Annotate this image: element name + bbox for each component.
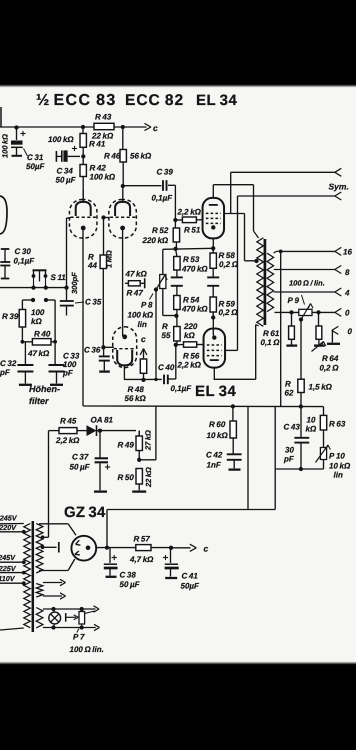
R64 label: [320, 354, 340, 373]
R55 label: [162, 322, 171, 340]
rectifier GZ34: [71, 536, 96, 561]
R59 label: [219, 300, 239, 318]
resistor R40: [21, 339, 57, 345]
label 225V: [0, 564, 17, 573]
svg-text:C 41: C 41: [182, 572, 199, 581]
svg-text:C 42: C 42: [206, 451, 223, 460]
potentiometer P8: [156, 275, 176, 316]
grid bus between halves: [103, 218, 105, 256]
junction dot R61 tap: [289, 310, 293, 314]
svg-text:filter: filter: [29, 396, 49, 406]
junction dots P7: [80, 607, 84, 630]
R61 label: [261, 329, 281, 347]
svg-text:220 kΩ: 220 kΩ: [142, 236, 169, 245]
svg-text:0: 0: [345, 309, 350, 318]
C38 label: [120, 571, 141, 590]
OT secondary winding: [267, 253, 274, 311]
V3 g2 riser to Sym 2: [237, 196, 239, 350]
svg-text:10: 10: [307, 416, 316, 425]
svg-text:56 kΩ: 56 kΩ: [125, 394, 147, 403]
svg-text:2,2 kΩ: 2,2 kΩ: [55, 436, 80, 445]
V1b anode lead: [122, 186, 124, 203]
screen-to-tap wire: [245, 214, 257, 261]
svg-text:C 35: C 35: [85, 298, 102, 307]
R54 label: [181, 296, 208, 314]
GZ34 anode wire bottom: [39, 559, 75, 571]
tap wire 245V-2: [0, 561, 24, 563]
svg-text:R: R: [162, 322, 168, 331]
HT bus y=406: [83, 405, 324, 408]
GZ 34 label (big): [64, 504, 106, 521]
resistor R59: [210, 297, 216, 318]
resistor R53: [174, 249, 180, 270]
junction dot OT primary B+ tap: [254, 259, 258, 263]
wire: B+ rail 'c' top-left, y=127: [0, 126, 147, 128]
V2 g2 wire: [224, 213, 245, 215]
tap dot 245V-2: [22, 560, 26, 564]
V1a anode lead: [82, 190, 84, 203]
Hoehenfilter label: [29, 384, 60, 406]
capacitor C42: [227, 454, 242, 469]
R53 label: [181, 255, 208, 274]
R44 value 1MΩ (rotated): [105, 250, 114, 268]
svg-text:0,2 Ω: 0,2 Ω: [320, 364, 340, 373]
junction dot R41/R42/C34: [81, 154, 85, 158]
wire C39 to R52 node: [168, 185, 175, 219]
svg-text:P 7: P 7: [73, 633, 85, 642]
svg-text:470 kΩ: 470 kΩ: [181, 305, 208, 314]
label 245V: [0, 514, 18, 523]
heater arrow 1: [43, 579, 66, 585]
label 0 (second): [348, 327, 353, 336]
svg-text:C 36: C 36: [84, 346, 101, 355]
resistor R47: [125, 278, 145, 288]
capacitor C37 (electrolytic): [94, 431, 110, 492]
svg-text:30: 30: [285, 446, 294, 455]
label 220V: [0, 523, 17, 532]
junction dot R52 bottom: [173, 247, 177, 251]
label 4: [344, 289, 350, 298]
C34 label: [56, 167, 77, 185]
svg-text:c: c: [204, 544, 209, 554]
svg-text:EL 34: EL 34: [195, 383, 237, 400]
svg-text:C 34: C 34: [57, 167, 74, 176]
B+ feed riser: [247, 406, 249, 509]
svg-text:kΩ: kΩ: [31, 317, 42, 326]
svg-text:4: 4: [344, 289, 350, 298]
tap wire 220V: [0, 531, 24, 533]
P8 feed wire: [162, 249, 164, 274]
svg-text:62: 62: [285, 389, 294, 398]
resistor R52: [173, 228, 179, 249]
V2 g2 riser to Sym: [230, 172, 232, 213]
svg-text:C 31: C 31: [27, 153, 44, 162]
HT secondary tap dot (bias): [41, 535, 45, 539]
R44 label: [87, 253, 97, 271]
capacitor C38 (electrolytic): [104, 548, 118, 577]
lamp circuit bottom wire: [43, 624, 100, 630]
R51 value 2.2kΩ: [177, 208, 202, 217]
C30 label: [14, 247, 36, 266]
svg-text:1,5 kΩ: 1,5 kΩ: [309, 383, 333, 392]
junction dot C37 tap: [98, 428, 102, 432]
svg-text:R 64: R 64: [322, 354, 339, 363]
svg-text:R 46: R 46: [104, 152, 121, 161]
svg-text:100 kΩ: 100 kΩ: [90, 173, 116, 182]
svg-text:Sym.: Sym.: [329, 182, 349, 192]
svg-text:300pF: 300pF: [70, 272, 79, 294]
resistor R64 (adjustable): [312, 312, 326, 351]
resistor R45: [49, 428, 87, 434]
resistor R42: [80, 151, 86, 200]
V2 g1 wire: [0, 0, 1, 1]
OT primary winding: [257, 238, 264, 326]
R45 label: [55, 417, 80, 446]
svg-text:pF: pF: [62, 369, 74, 378]
tap dot 225V: [22, 571, 26, 575]
capacitor C35: [60, 288, 74, 316]
svg-text:225V: 225V: [0, 564, 17, 573]
junction dot input/S11 left: [31, 285, 35, 289]
resistor R51: [175, 217, 202, 223]
secondary riser to bus: [280, 251, 282, 406]
P9 label: [288, 295, 305, 305]
capacitor C33: [49, 342, 65, 385]
svg-text:4,7 kΩ: 4,7 kΩ: [129, 555, 154, 564]
R40 value 47kΩ: [27, 349, 50, 358]
junction dot R54/P8/R55: [174, 314, 178, 318]
R46 label: [104, 152, 152, 161]
svg-text:c: c: [141, 334, 146, 344]
tap wire 110V: [0, 582, 24, 584]
B+ feed wire y=509.5: [107, 509, 275, 511]
resistor R58: [210, 248, 216, 268]
R42 label: [90, 164, 116, 182]
capacitor C32: [17, 342, 33, 385]
svg-text:c: c: [153, 123, 158, 133]
svg-text:245V: 245V: [0, 553, 16, 562]
R50 label: [118, 473, 135, 482]
R43 value 22 kΩ: [91, 132, 114, 141]
junction dot R59 bottom: [211, 315, 215, 319]
resistor R46: [120, 127, 126, 186]
capacitor C34 (electrolytic, input coupling): [56, 146, 80, 162]
tap dot 110V: [22, 581, 26, 585]
svg-text:50µF: 50µF: [181, 582, 201, 591]
PT core: [32, 521, 35, 632]
junction dot input/S11 right: [44, 285, 48, 289]
Sym label: [329, 182, 349, 192]
V1c anode lead: [123, 366, 125, 380]
svg-text:R 56: R 56: [183, 352, 200, 361]
OT secondary top hook: [274, 251, 281, 253]
svg-text:0,1µF: 0,1µF: [152, 194, 174, 203]
diode OA81: [87, 425, 137, 436]
C43 label: [283, 423, 300, 464]
svg-text:1nF: 1nF: [207, 461, 222, 470]
scan paper background: [0, 85, 356, 665]
junction dot R64 tap: [316, 310, 320, 314]
svg-text:GZ 34: GZ 34: [64, 504, 106, 521]
svg-text:pF: pF: [283, 455, 295, 464]
svg-text:lin: lin: [334, 471, 343, 480]
junction dot R41 top: [81, 125, 85, 129]
label 245V-2: [0, 553, 16, 562]
svg-text:C 30: C 30: [15, 247, 32, 256]
R41 value 100 kΩ: [48, 135, 74, 144]
capacitor between R58/R59: [207, 268, 219, 297]
box left wire: [274, 406, 276, 509]
arrow terminal c (R48 top): [140, 334, 147, 359]
tap wire 225V: [0, 572, 24, 574]
V2 anode wire to OT primary top: [213, 185, 258, 238]
svg-text:100 kΩ: 100 kΩ: [128, 311, 154, 320]
V3 g2 wire: [225, 349, 237, 351]
tap 16 wire: [281, 247, 342, 255]
svg-text:C 43: C 43: [284, 423, 301, 432]
junction dot wiper/C40 wire: [154, 378, 157, 381]
rotated label 100 kΩ (left edge resistor): [1, 107, 10, 158]
svg-text:C 37: C 37: [72, 453, 89, 462]
pentode V2 (EL34 upper): [203, 198, 225, 239]
R57 label: [129, 535, 154, 565]
svg-text:50 µF: 50 µF: [120, 580, 141, 589]
svg-text:lin: lin: [138, 320, 147, 329]
svg-text:10 kΩ: 10 kΩ: [207, 431, 229, 440]
svg-text:245V: 245V: [0, 514, 18, 523]
C32 label: [0, 359, 17, 377]
svg-text:0,2 Ω: 0,2 Ω: [219, 308, 239, 317]
pilot lamp: [49, 609, 61, 628]
svg-text:C 40: C 40: [158, 363, 175, 372]
svg-text:110V: 110V: [0, 574, 16, 583]
junction dot C43 bottom: [299, 467, 303, 471]
svg-text:50 µF: 50 µF: [70, 463, 91, 472]
svg-text:ECC 82: ECC 82: [125, 92, 184, 109]
V3 anode wire to OT primary bottom: [214, 325, 259, 380]
wire to R39: [22, 300, 33, 310]
svg-text:8: 8: [345, 268, 350, 277]
C35 label: [75, 298, 102, 307]
R52 label: [142, 226, 169, 245]
capacitor C43: [294, 407, 309, 470]
resistor R41: [80, 127, 86, 151]
junction dot R60 on bus: [231, 404, 235, 408]
svg-text:470 kΩ: 470 kΩ: [181, 265, 208, 274]
resistor R55: [174, 316, 180, 345]
svg-text:R 45: R 45: [60, 417, 77, 426]
wire C39 node down / R52: [174, 220, 176, 228]
svg-text:R 48: R 48: [128, 385, 145, 394]
svg-text:R 50: R 50: [118, 473, 135, 482]
OT core: [264, 239, 267, 325]
C42 label: [206, 451, 223, 470]
junction dot tap16: [279, 250, 283, 254]
R45 feed wire: [43, 431, 49, 538]
pentode V3 (EL34 lower): [204, 329, 226, 368]
resistor R62: [298, 379, 304, 406]
junction dot R46 top: [121, 125, 125, 129]
junction dot R46 bottom / C39 node: [121, 184, 125, 188]
svg-text:pF: pF: [0, 368, 11, 377]
svg-text:100: 100: [31, 308, 45, 317]
svg-text:½ ECC 83: ½ ECC 83: [36, 92, 117, 109]
C39 label: [152, 168, 174, 203]
C37 label: [70, 453, 91, 472]
tap 0 wire: [275, 308, 342, 316]
R49 label: [118, 441, 135, 450]
S11 label: [51, 273, 67, 282]
OA81 label: [91, 416, 114, 425]
svg-text:R 54: R 54: [183, 296, 200, 305]
V3 anode lead: [213, 368, 215, 380]
capacitor C40: [124, 345, 176, 384]
tap 4 wire: [274, 288, 342, 296]
P7 value: [70, 645, 104, 654]
R39 label: [2, 312, 19, 321]
GZ34 cathode return bar: [43, 542, 59, 553]
resistor R50: [132, 469, 146, 492]
resistor R48: [140, 359, 146, 380]
junction dots lamp: [51, 607, 55, 630]
primary top wire 245V: [0, 523, 24, 525]
potentiometer P9: [299, 304, 313, 320]
C31 label: [24, 149, 46, 172]
label 100Ω/lin (P9): [289, 279, 325, 288]
svg-text:R 41: R 41: [89, 140, 106, 149]
R47 label: [127, 289, 144, 298]
svg-text:R 53: R 53: [183, 255, 200, 264]
V1b grid wire: [104, 217, 110, 219]
R40 label: [34, 330, 51, 339]
junction dot C41 tap: [169, 546, 173, 550]
EL 34 label (big): [195, 383, 237, 400]
resistor R44: [100, 255, 106, 347]
label 8: [345, 268, 350, 277]
svg-text:R 39: R 39: [2, 312, 19, 321]
svg-text:S 11: S 11: [51, 273, 67, 282]
svg-text:2,2 kΩ: 2,2 kΩ: [177, 361, 202, 370]
V1c grid wire: [103, 346, 114, 348]
R51 label: [184, 226, 201, 235]
svg-text:Höhen-: Höhen-: [29, 384, 60, 394]
capacitor C31 (electrolytic): [11, 127, 26, 156]
P7 label: [73, 629, 85, 642]
svg-text:0,1µF: 0,1µF: [14, 257, 36, 266]
R60 label: [207, 420, 229, 440]
heater arrow 2: [43, 593, 66, 599]
capacitor C30: [0, 249, 10, 279]
resistor R63: [320, 407, 326, 448]
resistor R56: [176, 342, 204, 347]
PT HT secondary: [36, 524, 43, 574]
label 110V: [0, 574, 16, 583]
GZ34 anode wire top: [39, 524, 76, 535]
svg-text:220V: 220V: [0, 523, 17, 532]
V3 cathode lead: [212, 318, 214, 336]
wiper line to R62: [300, 320, 302, 380]
capacitor between R53/R54: [171, 270, 183, 296]
svg-text:0,1 Ω: 0,1 Ω: [261, 338, 281, 347]
tap dot 220V: [22, 530, 26, 534]
C33 label: [62, 352, 80, 378]
svg-text:10 kΩ: 10 kΩ: [329, 462, 351, 471]
resistor R60: [230, 406, 236, 453]
triode V1c (ECC82 b, inverted): [113, 327, 137, 368]
V1a grid wire to input: [67, 218, 71, 287]
triode V1a (1/2 ECC83): [69, 200, 97, 239]
svg-text:P 10: P 10: [329, 452, 345, 461]
V2 anode lead: [212, 185, 214, 199]
terminal 0 (ground): [327, 326, 340, 343]
capacitor C36: [99, 347, 110, 371]
label 16: [343, 248, 352, 257]
resistor R39: [19, 310, 25, 342]
bus wire y=249 (cathode of EL34 upper to P8): [163, 248, 213, 249]
Sym terminal wire 2: [238, 192, 342, 200]
partial tube at left edge: [0, 196, 7, 234]
R58 label: [219, 251, 239, 269]
PT heater winding: [36, 584, 43, 598]
svg-text:OA 81: OA 81: [91, 416, 114, 425]
junction dot R49/R50: [137, 458, 141, 462]
NFB drop to R49/R50: [139, 406, 156, 460]
box bottom wire: [275, 468, 323, 470]
svg-text:100 kΩ: 100 kΩ: [1, 134, 10, 158]
svg-text:50µF: 50µF: [26, 162, 46, 171]
R50 value 22kΩ rotated: [144, 467, 153, 488]
junction dot V2 cathode: [211, 246, 215, 250]
V1a cathode lead (feedback line): [82, 230, 84, 406]
capacitor C39: [163, 180, 167, 191]
P8 wiper dot: [154, 287, 158, 291]
resistor R43: [94, 123, 114, 129]
switch S11: [32, 270, 48, 287]
C40 label: [158, 363, 192, 393]
svg-text:27 kΩ: 27 kΩ: [144, 430, 153, 451]
capacitor C41 (electrolytic): [163, 548, 179, 578]
R39 value 100 kΩ: [31, 308, 45, 326]
svg-text:P 9: P 9: [288, 296, 300, 305]
input wire y=287.7: [0, 287, 67, 289]
svg-text:0,1µF: 0,1µF: [171, 384, 193, 393]
C41 label: [181, 572, 201, 591]
svg-text:50 µF: 50 µF: [56, 176, 77, 185]
wire to C33 branch: [46, 300, 55, 342]
R62 label: [285, 380, 333, 398]
svg-text:R 61: R 61: [263, 329, 280, 338]
svg-text:R 49: R 49: [118, 441, 135, 450]
svg-text:55: 55: [162, 331, 171, 340]
junction dot grid line: [64, 285, 68, 289]
C36 label: [84, 346, 101, 355]
svg-text:1 MΩ: 1 MΩ: [105, 250, 114, 268]
svg-text:0,2 Ω: 0,2 Ω: [219, 260, 239, 269]
svg-text:44: 44: [87, 261, 97, 270]
svg-text:R 51: R 51: [184, 226, 201, 235]
P8 wiper line down: [155, 290, 157, 380]
junction dot R48 bottom: [141, 378, 145, 382]
B+ riser to rail: [106, 510, 108, 548]
resistor R49: [136, 431, 142, 460]
P8 label with pointer: [128, 294, 154, 330]
resistor R43 label: [95, 113, 112, 122]
R41 label: [89, 140, 106, 149]
R49 value 27kΩ rotated: [144, 430, 153, 451]
PT primary winding: [24, 524, 31, 628]
svg-text:kΩ: kΩ: [306, 425, 317, 434]
V1b cathode lead: [122, 230, 124, 336]
